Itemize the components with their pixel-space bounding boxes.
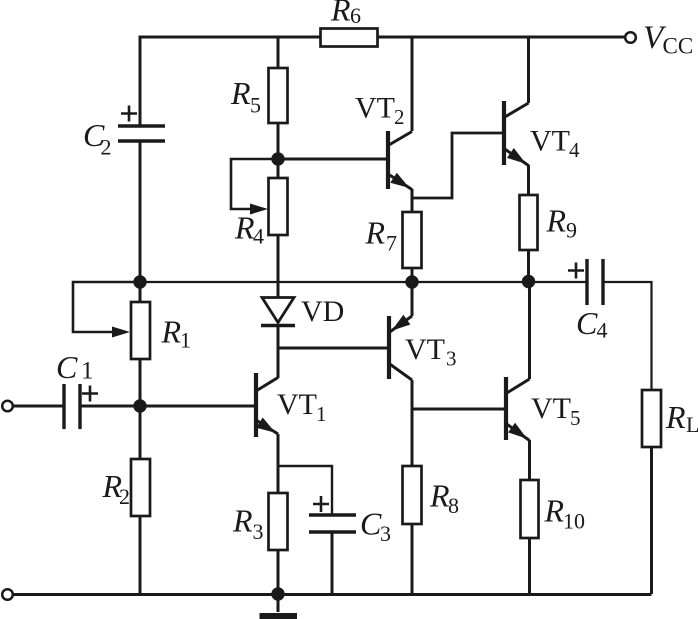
svg-text:3: 3 bbox=[446, 347, 457, 371]
wire VT2 emitter to VT4 base link bbox=[412, 133, 504, 198]
svg-text:R: R bbox=[230, 75, 251, 111]
wire VT5 emitter to R10 top bbox=[528, 440, 531, 480]
svg-text:3: 3 bbox=[380, 521, 391, 546]
svg-text:VT: VT bbox=[531, 392, 571, 425]
node C junction (R7/VT3) bbox=[405, 275, 418, 288]
svg-text:C: C bbox=[360, 506, 382, 542]
svg-text:4: 4 bbox=[597, 318, 608, 343]
wire VT3 collector to VT5 base bbox=[412, 408, 506, 411]
wire R4 top stub bbox=[277, 159, 280, 178]
svg-text:CC: CC bbox=[663, 34, 694, 59]
wire node A to R1 top bbox=[139, 282, 142, 302]
node B junction (VT2 base / R4) bbox=[271, 152, 284, 165]
svg-text:R: R bbox=[365, 215, 386, 251]
svg-text:4: 4 bbox=[253, 224, 264, 249]
svg-text:VT: VT bbox=[530, 125, 570, 158]
input node junction bbox=[133, 399, 146, 412]
wire R3 bottom to ground rail bbox=[277, 550, 280, 594]
wire R4 pot loop bbox=[231, 159, 278, 209]
resistor RL bbox=[642, 390, 661, 447]
wire VT1 base bbox=[140, 405, 256, 408]
svg-text:R: R bbox=[544, 493, 565, 529]
svg-text:R: R bbox=[234, 210, 255, 246]
wire VD cathode to VT1 collector bbox=[277, 326, 280, 378]
wire VT2 collector to rail bbox=[411, 37, 414, 131]
svg-text:2: 2 bbox=[394, 105, 405, 129]
transistor VT4 (NPN) bbox=[504, 101, 529, 166]
wire VT1 collector to VT3 base link bbox=[278, 347, 389, 350]
wire top rail (Vcc rail) bbox=[140, 37, 625, 126]
input terminal (bottom) bbox=[2, 589, 13, 600]
svg-text:1: 1 bbox=[180, 328, 191, 353]
wire C3 bottom to ground rail bbox=[331, 532, 334, 594]
ground node junction bbox=[271, 587, 284, 600]
svg-text:5: 5 bbox=[250, 93, 261, 118]
potentiometer R1 wiper arrow bbox=[112, 327, 130, 338]
svg-text:3: 3 bbox=[253, 519, 264, 544]
wire R1 pot loop bbox=[73, 282, 140, 332]
potentiometer R4 body bbox=[269, 178, 288, 235]
resistor R7 bbox=[403, 212, 422, 268]
transistor VT3 (PNP) bbox=[389, 315, 412, 380]
resistor R6 bbox=[321, 29, 378, 47]
wire R5 top drop bbox=[277, 37, 280, 68]
Vcc terminal bbox=[625, 32, 636, 43]
capacitor C1 polarity + bbox=[82, 386, 98, 402]
potentiometer R1 body bbox=[131, 302, 150, 359]
svg-text:7: 7 bbox=[386, 231, 397, 256]
wire input node to R2 top bbox=[139, 406, 142, 459]
svg-text:C: C bbox=[56, 349, 78, 385]
svg-text:6: 6 bbox=[350, 3, 361, 28]
node A junction bbox=[133, 275, 146, 288]
wire R4 bottom to VD anode bbox=[277, 235, 280, 297]
transistor VT2 (NPN) bbox=[388, 131, 412, 190]
potentiometer R4 wiper arrow bbox=[250, 204, 268, 215]
resistor R3 bbox=[269, 493, 288, 550]
svg-text:VT: VT bbox=[405, 333, 445, 366]
wire C2 bottom to node A bbox=[139, 141, 142, 282]
node D junction (R9/VT5) bbox=[522, 275, 535, 288]
svg-text:1: 1 bbox=[81, 358, 94, 385]
wire R5 bottom to node B bbox=[277, 123, 280, 159]
capacitor C1 plates bbox=[64, 384, 80, 429]
wire ground rail (bottom bus) bbox=[13, 593, 652, 596]
wire VT2 emitter to R7 top bbox=[411, 189, 414, 212]
resistor R2 bbox=[131, 459, 150, 516]
input terminal (top) bbox=[2, 401, 13, 412]
wire C1 to input node bbox=[80, 405, 140, 408]
resistor R9 bbox=[520, 195, 538, 250]
svg-text:R: R bbox=[161, 314, 182, 350]
transistor VT1 (NPN) bbox=[256, 373, 278, 437]
wire node row (mid bus) bbox=[140, 282, 652, 390]
svg-text:4: 4 bbox=[569, 138, 580, 162]
svg-text:1: 1 bbox=[316, 402, 327, 426]
transistor VT5 (NPN) bbox=[506, 377, 530, 441]
svg-text:2: 2 bbox=[101, 135, 112, 160]
capacitor C2 polarity + bbox=[121, 106, 137, 122]
wire R2 bottom to ground rail bbox=[139, 516, 142, 594]
capacitor C3 plates bbox=[309, 515, 356, 532]
wire node D to VT5 collector bbox=[528, 282, 531, 379]
wire R1 bottom to input node bbox=[139, 359, 142, 406]
svg-text:VT: VT bbox=[355, 92, 395, 125]
wire R9 bottom to node D bbox=[527, 250, 530, 282]
svg-text:5: 5 bbox=[570, 406, 581, 430]
wire VT4 collector to rail bbox=[527, 37, 530, 103]
wire VT1 emitter to R3 bbox=[277, 434, 280, 493]
wire input terminal to C1 bbox=[13, 405, 64, 408]
svg-text:VT: VT bbox=[277, 388, 317, 421]
wire VT4 emitter to R9 top bbox=[527, 165, 530, 195]
ground bbox=[260, 594, 298, 619]
svg-text:8: 8 bbox=[448, 493, 459, 518]
capacitor C4 plates bbox=[587, 259, 603, 305]
svg-text:R: R bbox=[546, 203, 567, 239]
wire emitter node to C3 top bbox=[278, 466, 332, 515]
wire RL bottom to ground rail bbox=[650, 447, 653, 594]
svg-text:10: 10 bbox=[563, 509, 585, 534]
svg-text:VD: VD bbox=[301, 295, 344, 328]
svg-text:R: R bbox=[330, 0, 351, 28]
svg-text:R: R bbox=[665, 399, 686, 435]
resistor R5 bbox=[269, 68, 288, 123]
svg-text:2: 2 bbox=[119, 484, 130, 509]
wire R8 bottom to ground rail bbox=[411, 524, 414, 594]
capacitor C4 polarity + bbox=[568, 263, 584, 279]
diode VD bbox=[262, 298, 294, 323]
svg-text:C: C bbox=[576, 305, 598, 341]
wire R10 bottom to ground rail bbox=[528, 538, 531, 594]
wire node C to VT3 emitter bbox=[411, 282, 414, 316]
svg-text:R: R bbox=[429, 478, 450, 514]
wire R7 bottom to node C bbox=[411, 268, 414, 282]
resistor R8 bbox=[403, 466, 422, 524]
wire VT2 base bbox=[278, 158, 388, 161]
capacitor C2 plates bbox=[118, 126, 165, 141]
capacitor C3 polarity + bbox=[313, 496, 329, 512]
svg-text:R: R bbox=[232, 503, 253, 539]
wire VT3 collector down to R8 bbox=[411, 380, 414, 466]
svg-text:9: 9 bbox=[566, 218, 577, 243]
svg-text:L: L bbox=[686, 412, 698, 437]
resistor R10 bbox=[521, 480, 539, 538]
